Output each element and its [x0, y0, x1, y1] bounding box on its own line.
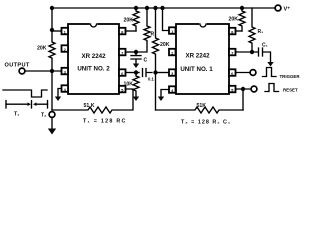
- svg-text:20K: 20K: [124, 18, 134, 24]
- pin 7 U2: [119, 49, 126, 56]
- pin 4 U1: [169, 86, 176, 93]
- capacitor C1: [252, 48, 271, 62]
- pin 2 U2: [62, 45, 69, 52]
- op U1 (XR 2242 UNIT NO. 1): [176, 22, 229, 94]
- pin 7 U1: [229, 49, 236, 56]
- svg-text:R₁: R₁: [258, 29, 264, 35]
- pin 6 U1: [229, 69, 236, 76]
- wire U2 pin 7: [126, 51, 137, 53]
- resistor 51K (left feedback): [52, 89, 133, 113]
- wire to U1 pin 1: [163, 8, 170, 31]
- node rail A: [134, 6, 138, 10]
- waveform arrow T2: [36, 103, 48, 105]
- resistor R (timing): [136, 8, 150, 52]
- resistor 20K (mid-left pullup): [133, 8, 139, 31]
- node reset junction: [241, 87, 245, 91]
- pin 5 U2: [119, 86, 126, 93]
- capacitor C (timing): [131, 52, 141, 64]
- terminal V+: [275, 5, 281, 11]
- svg-text:51K: 51K: [197, 103, 207, 109]
- resistor 20K (mid-right pullup): [153, 8, 159, 73]
- ground arrow (U2 pin4): [55, 97, 61, 102]
- pin 3 U1: [169, 69, 176, 76]
- wire output feedback down: [51, 71, 53, 110]
- svg-text:10K: 10K: [124, 82, 134, 88]
- terminal trigger: [250, 70, 256, 76]
- ground arrow (U1 pin4): [158, 97, 164, 102]
- resistor 20K (left): [49, 30, 55, 71]
- node rail-left: [50, 6, 54, 10]
- pin 8 U1: [229, 28, 236, 35]
- wire reset feedback down: [242, 89, 244, 110]
- resistor R1: [249, 8, 255, 52]
- resistor 10K: [133, 73, 139, 97]
- wire to U1 pin 8: [236, 30, 243, 32]
- terminal feedback ground: [49, 112, 55, 118]
- ground arrow (below C): [133, 64, 139, 69]
- node RC: [134, 50, 138, 54]
- svg-text:XR 2242: XR 2242: [185, 53, 210, 60]
- wire down from terminal: [51, 117, 53, 129]
- resistor 51K (right feedback): [156, 107, 244, 113]
- node R1C1: [250, 50, 254, 54]
- wire U2 pin6 coupling line: [126, 72, 140, 74]
- waveform arrow T1: [6, 103, 28, 105]
- node rail B: [145, 6, 149, 10]
- svg-text:OUTPUT: OUTPUT: [5, 63, 30, 69]
- terminal reset: [251, 86, 257, 92]
- ground arrow (below C1): [267, 62, 273, 67]
- terminal OUTPUT: [19, 68, 25, 74]
- node rail C: [153, 6, 157, 10]
- pin 1 U1: [169, 27, 176, 34]
- node pin1 junction: [50, 28, 54, 32]
- ground arrow (bottom left): [48, 129, 56, 135]
- wire U1 pin 7: [236, 51, 253, 53]
- svg-text:V⁺: V⁺: [284, 6, 291, 13]
- resistor 20K (right pullup): [239, 8, 245, 31]
- node coupling-left: [134, 70, 138, 74]
- svg-text:T₂ = 128 R₁ C₁: T₂ = 128 R₁ C₁: [181, 120, 231, 126]
- wire V+ top rail: [52, 7, 275, 9]
- svg-text:T₁: T₁: [14, 112, 19, 118]
- svg-text:C: C: [144, 58, 148, 64]
- svg-text:20K: 20K: [229, 17, 239, 23]
- waveform output pulse: [3, 90, 47, 97]
- wire mid feedback down: [155, 73, 157, 111]
- svg-text:20K: 20K: [37, 46, 47, 52]
- pin 3 U2: [62, 68, 69, 75]
- svg-text:0.1: 0.1: [148, 77, 154, 82]
- svg-text:R: R: [151, 32, 155, 38]
- svg-text:T₁ = 128 RC: T₁ = 128 RC: [83, 119, 127, 125]
- svg-text:51 K: 51 K: [84, 103, 95, 109]
- svg-text:XR 2242: XR 2242: [81, 53, 106, 60]
- pin 1 U2: [62, 28, 69, 35]
- node output junction: [50, 69, 54, 73]
- capacitor 0.1 coupling: [143, 69, 153, 77]
- wire to U1 pin 3: [156, 72, 170, 74]
- waveform tick marks: [6, 101, 48, 109]
- svg-text:TRIGGER: TRIGGER: [280, 74, 301, 79]
- pin 8 U2: [119, 28, 126, 35]
- pin 6 U2: [119, 69, 126, 76]
- node rail E: [240, 6, 244, 10]
- pin 4 U2: [62, 85, 69, 92]
- svg-text:T₂: T₂: [41, 113, 47, 119]
- node rail D: [160, 6, 164, 10]
- op U2 (XR 2242 UNIT NO. 2): [68, 22, 119, 94]
- svg-text:RESET: RESET: [283, 88, 298, 93]
- pulse glyph reset: [265, 84, 279, 92]
- svg-text:C₁: C₁: [262, 43, 268, 49]
- pin 2 U1: [169, 49, 176, 56]
- pin 5 U1: [229, 86, 236, 93]
- svg-text:20K: 20K: [160, 42, 170, 48]
- node coupling-right: [153, 70, 157, 74]
- wire trigger line: [236, 72, 251, 74]
- ground arrow (below 10K): [133, 97, 139, 102]
- svg-text:UNIT NO. 2: UNIT NO. 2: [77, 66, 110, 73]
- wire to U2 pin 1: [52, 30, 61, 32]
- wire to U2 pin 8: [126, 30, 137, 32]
- wire U1 pin4 to ground: [161, 90, 169, 97]
- wire output line: [25, 70, 61, 72]
- pulse glyph trigger: [263, 68, 277, 77]
- svg-text:UNIT NO. 1: UNIT NO. 1: [180, 66, 213, 73]
- wire left drop: [51, 8, 53, 30]
- wire reset line: [236, 88, 252, 90]
- wire U2 pin4 to ground: [58, 89, 62, 97]
